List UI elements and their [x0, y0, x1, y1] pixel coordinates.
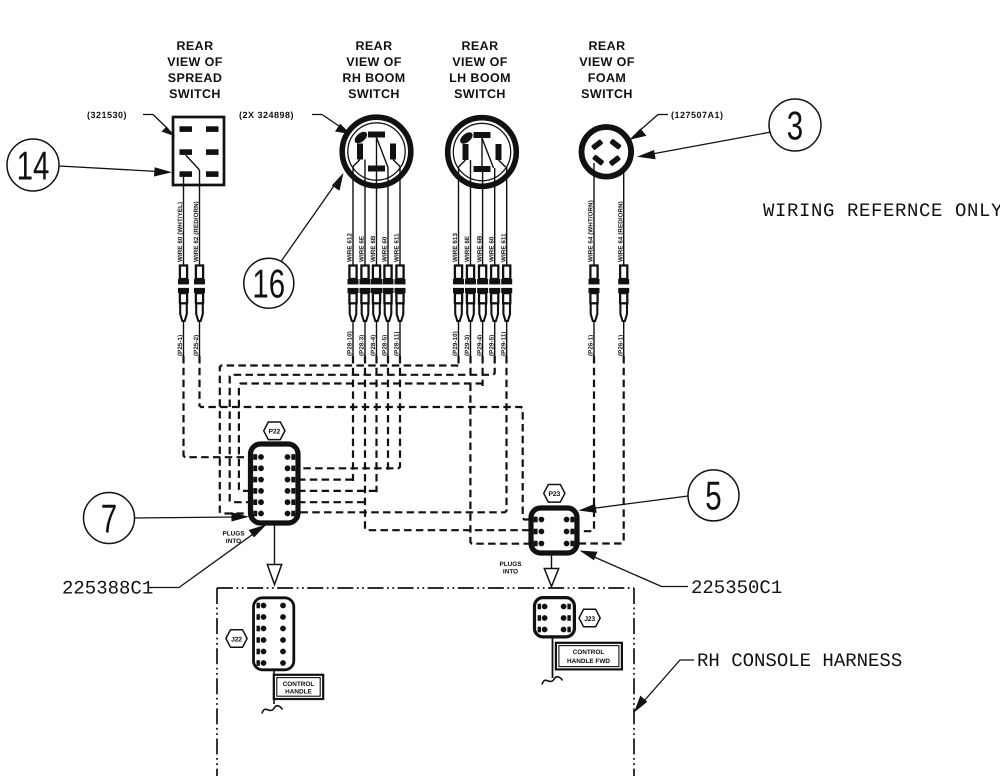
splice connector on WIRE 6B [371, 266, 382, 322]
splice connector on WIRE 611 [395, 266, 406, 322]
splice connector on WIRE 64 WHT [589, 266, 600, 322]
svg-text:PLUGS: PLUGS [222, 531, 245, 538]
node J23 hexagon label [579, 609, 600, 627]
splice connector on WIRE 60 RH [383, 266, 394, 322]
label 225350C1 with leader arrow to P23 [580, 551, 783, 600]
svg-text:P23: P23 [549, 491, 561, 498]
wire from J23 to control handle [552, 637, 554, 678]
svg-text:WIRE 62 (RED/ORN): WIRE 62 (RED/ORN) [193, 201, 200, 262]
plug-in hollow arrow below P23 [544, 554, 558, 587]
wire line C: P22 row4 left across, corner down to P23 row3 left [239, 384, 531, 544]
svg-text:VIEW OF: VIEW OF [579, 55, 635, 69]
wire WIRE 62 (RED/ORN) from spread switch to splice, then dashed to P23 pin row1 left [200, 170, 532, 520]
control handle box (J22) [274, 675, 323, 699]
wire WIRE 612 from RH boom switch, dashed down to P22 row3 right [298, 167, 353, 482]
svg-text:REAR: REAR [355, 39, 392, 53]
svg-text:LH BOOM: LH BOOM [449, 71, 511, 85]
svg-text:INTO: INTO [503, 568, 518, 575]
svg-text:RH BOOM: RH BOOM [342, 71, 405, 85]
svg-text:(127507A1): (127507A1) [671, 110, 724, 120]
svg-text:SWITCH: SWITCH [169, 87, 221, 101]
svg-text:REAR: REAR [461, 39, 498, 53]
title: REAR VIEW OF FOAM SWITCH [579, 39, 635, 101]
wire WIRE 6B from RH boom switch, dashed down to P22 row4 right [298, 172, 377, 493]
callout circle 14 with arrow to spread switch [7, 139, 172, 191]
control handle fwd box (J23) [556, 643, 622, 670]
wire WIRE 6E from LH boom switch, dashed down to tee on common run [470, 160, 472, 378]
splice connector on WIRE 60 LH [489, 266, 500, 322]
callout circle 5 with arrow to P23 [579, 470, 740, 521]
svg-text:(2X 324898): (2X 324898) [239, 110, 294, 120]
svg-text:3: 3 [787, 103, 803, 148]
svg-text:WIRE 611: WIRE 611 [394, 233, 401, 262]
title: REAR VIEW OF SPREAD SWITCH [167, 39, 223, 101]
svg-text:WIRE 60 (WHT/YEL): WIRE 60 (WHT/YEL) [177, 202, 184, 262]
node P23 hexagon label [544, 485, 565, 503]
wire common run from P22 row5 left across to LH WIRE 60 corner [230, 356, 495, 502]
svg-text:P22: P22 [269, 429, 281, 436]
svg-text:14: 14 [17, 143, 50, 189]
wire WIRE 64 (WHT/ORN) from foam switch, dashed down, corner left into P23 row2 right [577, 163, 594, 531]
svg-text:REAR: REAR [588, 39, 625, 53]
svg-text:WIRE 613: WIRE 613 [452, 233, 459, 262]
wire WIRE 60 (WHT/YEL) from spread switch pin to splice, then dashed to P22 pin row1 left [184, 177, 251, 457]
label RH CONSOLE HARNESS with leader arrow to harness box [634, 650, 902, 713]
node J22 hexagon label [226, 630, 247, 648]
part number (127507A1) with leader arrow to foam switch [629, 110, 724, 140]
svg-text:SWITCH: SWITCH [581, 87, 633, 101]
svg-text:RH CONSOLE HARNESS: RH CONSOLE HARNESS [697, 650, 902, 672]
svg-text:J22: J22 [231, 636, 242, 643]
wire WIRE 60 from RH boom switch, dashed down to P22 row2 right [387, 168, 389, 471]
svg-text:WIRE 612: WIRE 612 [347, 233, 354, 262]
svg-text:WIRE 64 (WHT/ORN): WIRE 64 (WHT/ORN) [588, 200, 595, 262]
label 225388C1 with leader arrow to P22 [62, 525, 267, 600]
connector P22 [251, 444, 299, 523]
wire WIRE 613 from LH boom switch, dashed down, long left run, down to P22 row6 left [220, 167, 459, 514]
splice connector on WIRE 612 [348, 266, 359, 322]
svg-text:SPREAD: SPREAD [168, 71, 223, 85]
connector J23 [535, 598, 575, 637]
svg-text:WIRE 611: WIRE 611 [500, 233, 507, 262]
svg-text:HANDLE: HANDLE [285, 689, 312, 696]
spread switch (rear view) [173, 117, 224, 185]
svg-text:VIEW OF: VIEW OF [167, 55, 223, 69]
plug-in hollow arrow below P22 [267, 524, 281, 585]
svg-text:WIRING REFERNCE ONLY: WIRING REFERNCE ONLY [763, 200, 1000, 222]
splice connector on WIRE 6E LH [465, 266, 476, 322]
wire WIRE 60 from LH boom switch (solid above splice) [494, 168, 496, 266]
part number (2X 324898) with leader arrow to RH boom switch [239, 110, 351, 134]
svg-text:WIRE 6B: WIRE 6B [476, 235, 483, 262]
svg-text:16: 16 [252, 261, 285, 307]
part number (321530) with leader arrow to spread switch [87, 110, 176, 137]
svg-text:J23: J23 [584, 616, 595, 623]
svg-text:225350C1: 225350C1 [691, 577, 782, 599]
node P22 hexagon label [264, 422, 285, 440]
wire WIRE 611 from LH boom switch, dashed down, corner left into P22 row6 right [298, 167, 507, 512]
splice connector on WIRE 60 [178, 266, 189, 322]
connector J22 [254, 598, 294, 670]
callout circle 16 with arrow to RH boom switch [244, 173, 344, 308]
svg-text:5: 5 [705, 473, 721, 519]
foam switch (rear view) [582, 127, 632, 177]
RH boom switch (rear view) [342, 117, 411, 186]
svg-text:225388C1: 225388C1 [62, 578, 153, 600]
callout circle 7 with arrow to P22 [84, 493, 250, 544]
svg-text:WIRE 6E: WIRE 6E [464, 236, 471, 262]
callout circle 3 with arrow to foam switch [637, 99, 821, 159]
svg-text:CONTROL: CONTROL [283, 681, 315, 688]
RH console harness box (phantom outline) [217, 588, 634, 776]
splice connector on WIRE 64 RED [618, 266, 629, 322]
svg-text:FOAM: FOAM [588, 71, 626, 85]
title: REAR VIEW OF RH BOOM SWITCH [342, 39, 405, 101]
splice connector on WIRE 613 [453, 266, 464, 322]
svg-text:WIRE 64 (RED/ORN): WIRE 64 (RED/ORN) [617, 201, 624, 262]
svg-text:7: 7 [101, 496, 117, 542]
svg-text:WIRE 6B: WIRE 6B [370, 235, 377, 262]
connector P23 [531, 508, 577, 553]
svg-text:HANDLE FWD: HANDLE FWD [567, 658, 610, 665]
svg-text:VIEW OF: VIEW OF [346, 55, 402, 69]
svg-text:CONTROL: CONTROL [573, 649, 605, 656]
svg-text:WIRE 6E: WIRE 6E [359, 236, 366, 262]
wire from J22 to control handle [273, 670, 275, 704]
svg-text:(321530): (321530) [87, 110, 127, 120]
wire WIRE 64 (RED/ORN) from foam switch, dashed down, corner left into P23 row3 right [577, 168, 624, 544]
svg-text:SWITCH: SWITCH [348, 87, 400, 101]
splice connector on WIRE 611 LH [501, 266, 512, 322]
splice connector on WIRE 6E [360, 266, 371, 322]
LH boom switch (rear view) [448, 118, 517, 187]
wire WIRE 6E from RH boom switch, dashed down then right to P23 row2 left, tee from P22 row5 right [298, 160, 531, 531]
splice connector on WIRE 62 [194, 266, 205, 322]
wire WIRE 611 from RH boom switch, dashed down, corner into P22 row2 right [298, 167, 400, 469]
svg-text:SWITCH: SWITCH [454, 87, 506, 101]
svg-text:REAR: REAR [176, 39, 213, 53]
splice connector on WIRE 6B LH [477, 266, 488, 322]
break squiggle below J23 wire [542, 677, 563, 685]
wire WIRE 6B from LH boom switch, dashed down to tee on line C [482, 172, 484, 386]
svg-text:VIEW OF: VIEW OF [452, 55, 508, 69]
svg-text:WIRE 60: WIRE 60 [382, 236, 389, 262]
title: REAR VIEW OF LH BOOM SWITCH [449, 39, 511, 101]
break squiggle below J22 wire [262, 706, 283, 714]
svg-text:PLUGS: PLUGS [499, 561, 522, 568]
